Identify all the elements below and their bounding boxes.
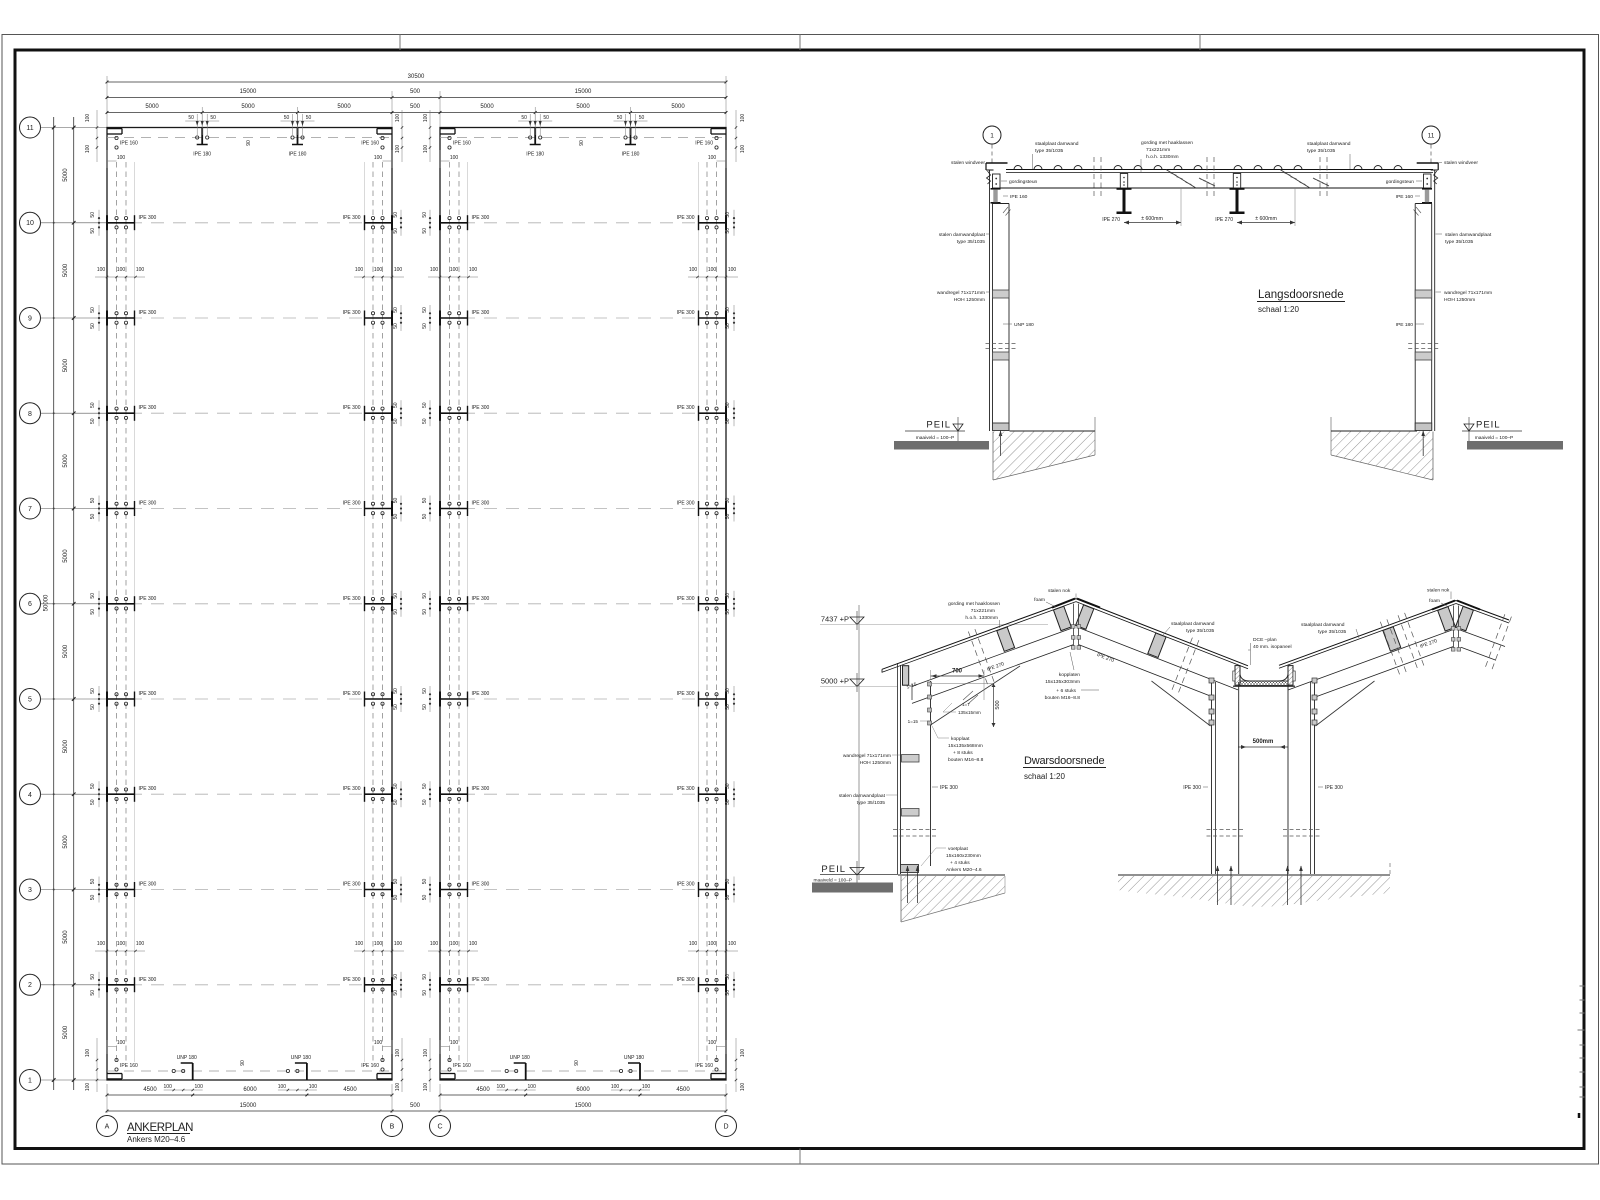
dim 600mm no.1 — [1124, 222, 1181, 224]
svg-text:stalen damwandplaat: stalen damwandplaat — [939, 232, 986, 238]
svg-text:100: 100 — [85, 145, 91, 154]
levels reference line — [858, 605, 860, 880]
svg-text:135x15mm: 135x15mm — [958, 710, 981, 715]
column IPE180 top x=535.2 — [534, 128, 536, 145]
svg-text:71x221mm: 71x221mm — [1146, 147, 1170, 153]
grid leader row 8 — [41, 412, 108, 414]
grid leader row 10 — [41, 222, 108, 224]
svg-text:50: 50 — [725, 498, 731, 504]
column IPE300 wall C row 10 — [440, 222, 468, 224]
svg-text:50: 50 — [725, 895, 731, 901]
svg-text:+ 6 stuks: + 6 stuks — [1056, 688, 1076, 694]
corner column D11 — [711, 128, 726, 130]
svg-text:kopplaten: kopplaten — [1059, 672, 1080, 678]
50 dims wall C row 5 — [429, 686, 431, 712]
svg-text:100: 100 — [708, 941, 717, 947]
svg-text:type 35/1035: type 35/1035 — [1318, 629, 1347, 635]
corner column C11 — [440, 128, 455, 130]
grid bubble 7 — [20, 498, 41, 519]
svg-text:IPE 300: IPE 300 — [677, 882, 695, 888]
svg-text:IPE 300: IPE 300 — [677, 977, 695, 983]
gordingsteun left — [993, 174, 1001, 188]
svg-text:HOH 1250mm: HOH 1250mm — [1444, 297, 1475, 303]
svg-text:stalen windveer: stalen windveer — [951, 160, 985, 166]
purlin blocks slope 2 — [1076, 605, 1094, 629]
svg-text:IPE 300: IPE 300 — [677, 786, 695, 792]
svg-text:type 35/1035: type 35/1035 — [1186, 628, 1215, 634]
svg-text:100: 100 — [374, 941, 383, 947]
centre line row 2 — [107, 984, 392, 986]
svg-text:foam: foam — [1429, 598, 1440, 604]
gordingsteun right — [1424, 174, 1432, 188]
centre line row 5 — [107, 698, 392, 700]
50 dims wall B row 7 — [400, 496, 402, 522]
grid bubble B — [382, 1116, 403, 1137]
svg-text:100: 100 — [395, 1049, 401, 1058]
svg-text:50: 50 — [393, 593, 399, 599]
svg-text:IPE 160: IPE 160 — [695, 141, 713, 147]
svg-text:IPE 160: IPE 160 — [361, 141, 379, 147]
grid bubble 8 — [20, 403, 41, 424]
column IPE300 wall D row 9 — [699, 317, 727, 319]
svg-text:100: 100 — [450, 1040, 459, 1046]
svg-text:50: 50 — [393, 990, 399, 996]
eave gording block — [903, 666, 909, 686]
svg-text:C: C — [437, 1124, 442, 1131]
svg-text:500: 500 — [410, 104, 421, 110]
svg-text:50: 50 — [393, 514, 399, 520]
dim 500mm middle — [1238, 746, 1288, 748]
50 dims wall A row 8 — [98, 400, 100, 426]
svg-text:50: 50 — [393, 212, 399, 218]
wind brace bay 1 — [1166, 170, 1196, 189]
svg-text:wandregel 71x171mm: wandregel 71x171mm — [843, 753, 891, 759]
svg-text:15000: 15000 — [575, 89, 592, 95]
svg-text:IPE 300: IPE 300 — [940, 785, 958, 791]
ridge plates + bolts apex 1 — [1073, 604, 1075, 648]
svg-text:100: 100 — [450, 155, 459, 161]
svg-text:IPE 300: IPE 300 — [472, 596, 490, 602]
svg-text:50: 50 — [393, 323, 399, 329]
svg-text:50: 50 — [90, 990, 96, 996]
svg-text:100: 100 — [430, 941, 439, 947]
dim line 4500/6000/4500 left bay — [107, 1094, 392, 1096]
svg-text:100: 100 — [309, 1084, 318, 1090]
svg-text:5000 +P: 5000 +P — [821, 677, 849, 686]
ruler ticks right border — [1580, 985, 1585, 987]
svg-text:100: 100 — [450, 941, 459, 947]
label IPE 160 left — [1003, 195, 1008, 197]
grid leader row 9 — [41, 317, 108, 319]
svg-text:15x135x568mm: 15x135x568mm — [948, 743, 983, 749]
svg-text:bouten M16–8.8: bouten M16–8.8 — [1045, 695, 1081, 701]
column IPE300 wall A row 5 — [107, 698, 135, 700]
svg-text:100: 100 — [728, 267, 737, 273]
purlin blocks slope 1 — [997, 627, 1015, 651]
corner column B11 — [377, 128, 392, 130]
foundation hatch right column — [1331, 432, 1433, 481]
svg-text:5000: 5000 — [576, 104, 590, 110]
svg-text:5000: 5000 — [63, 835, 69, 849]
svg-text:50: 50 — [284, 115, 290, 121]
svg-text:IPE 300: IPE 300 — [343, 691, 361, 697]
svg-text:50: 50 — [422, 799, 428, 805]
svg-text:50: 50 — [422, 402, 428, 408]
svg-text:50: 50 — [393, 974, 399, 980]
svg-text:gording met haaklossen: gording met haaklossen — [948, 601, 1000, 607]
svg-text:UNP 180: UNP 180 — [510, 1055, 530, 1061]
svg-text:40 mm. isopaneel: 40 mm. isopaneel — [1253, 644, 1292, 650]
column IPE300 wall B row 7 — [365, 508, 393, 510]
svg-text:IPE 270: IPE 270 — [1102, 217, 1120, 223]
svg-text:11: 11 — [26, 125, 33, 132]
svg-text:IPE 180: IPE 180 — [289, 152, 307, 158]
baseplate dwars left — [901, 865, 919, 873]
svg-text:50: 50 — [90, 974, 96, 980]
svg-text:± 600mm: ± 600mm — [1141, 216, 1163, 222]
centre line row 1 — [107, 1070, 392, 1072]
column dwars left inner flange — [930, 681, 932, 866]
svg-text:5: 5 — [28, 697, 32, 704]
column IPE180 top x=202.2 — [201, 128, 203, 145]
dim 600mm no.2 — [1237, 222, 1295, 224]
50 dims wall C row 4 — [429, 781, 431, 807]
column IPE300 wall D row 5 — [699, 698, 727, 700]
svg-text:3: 3 — [28, 887, 32, 894]
centre line row 3 — [107, 889, 392, 891]
svg-text:stalen nok: stalen nok — [1427, 588, 1450, 594]
corner column A11 — [107, 128, 122, 130]
dim group 100 wall D — [688, 276, 738, 278]
dashed break slope 3 — [1380, 619, 1406, 674]
svg-text:100: 100 — [689, 267, 698, 273]
column IPE300 wall A row 7 — [107, 508, 135, 510]
label IPE 300 middle right — [1318, 786, 1323, 788]
roof deck lines — [1006, 169, 1433, 171]
svg-text:500: 500 — [995, 700, 1001, 709]
svg-text:50: 50 — [422, 879, 428, 885]
svg-text:50: 50 — [90, 704, 96, 710]
ground bar dwars left — [812, 883, 893, 893]
svg-text:50: 50 — [393, 418, 399, 424]
svg-text:h.o.h. 1330mm: h.o.h. 1330mm — [1146, 154, 1179, 160]
anchors middle columns — [1217, 866, 1219, 905]
svg-text:gordingsteun: gordingsteun — [1386, 179, 1415, 185]
svg-text:4500: 4500 — [676, 1087, 690, 1093]
purlin IPE 270 no.1 — [1120, 174, 1127, 189]
roof slope 4 deck — [1456, 601, 1509, 621]
50 dims wall A row 3 — [98, 877, 100, 903]
svg-text:100: 100 — [394, 941, 403, 947]
grid bubble 9 — [20, 308, 41, 329]
svg-text:50: 50 — [725, 212, 731, 218]
svg-text:6000: 6000 — [243, 1087, 257, 1093]
50 dims wall B row 10 — [400, 210, 402, 236]
svg-text:5000: 5000 — [63, 358, 69, 372]
svg-text:1: 1 — [28, 1078, 32, 1085]
stalen nok apex2 — [1432, 601, 1455, 610]
svg-text:15000: 15000 — [575, 1103, 592, 1109]
svg-text:stalen damwandplaat: stalen damwandplaat — [839, 793, 886, 799]
deck panel break lines — [1093, 157, 1095, 196]
svg-text:50: 50 — [725, 974, 731, 980]
purlin blocks slope 3 — [1383, 627, 1401, 651]
svg-text:5000: 5000 — [63, 739, 69, 753]
right bay outline — [440, 128, 726, 1081]
centre line row 10 — [107, 222, 392, 224]
column IPE300 wall A row 4 — [107, 793, 135, 795]
svg-text:IPE 300: IPE 300 — [139, 786, 157, 792]
50 dims wall D row 2 — [733, 972, 735, 998]
svg-text:50: 50 — [639, 115, 645, 121]
svg-text:15000: 15000 — [240, 1103, 257, 1109]
roof deck corrugation bumps — [1014, 166, 1402, 170]
svg-text:IPE 180: IPE 180 — [526, 152, 544, 158]
svg-text:Dwarsdoorsnede: Dwarsdoorsnede — [1024, 755, 1104, 767]
svg-text:UNP 180: UNP 180 — [291, 1055, 311, 1061]
svg-text:+ 4 stuks: + 4 stuks — [950, 860, 970, 866]
svg-text:50: 50 — [422, 974, 428, 980]
svg-text:+ 8 stuks: + 8 stuks — [953, 750, 973, 756]
svg-text:5000: 5000 — [63, 454, 69, 468]
svg-text:IPE 300: IPE 300 — [472, 310, 490, 316]
dim line 15000/500/15000 — [107, 97, 726, 99]
svg-text:staalplaat damwand: staalplaat damwand — [1171, 621, 1215, 627]
svg-text:50: 50 — [393, 879, 399, 885]
column IPE300 wall C row 7 — [440, 508, 468, 510]
svg-text:100: 100 — [740, 114, 746, 123]
svg-text:4: 4 — [28, 792, 32, 799]
50 dims wall B row 4 — [400, 781, 402, 807]
column IPE180 top x=297.5 — [297, 128, 299, 145]
50 dims wall C row 9 — [429, 305, 431, 331]
50 dims wall D row 8 — [733, 400, 735, 426]
svg-text:90: 90 — [240, 1060, 246, 1066]
svg-text:IPE 300: IPE 300 — [1183, 785, 1201, 791]
svg-text:100: 100 — [708, 267, 717, 273]
svg-text:50: 50 — [393, 799, 399, 805]
svg-text:50: 50 — [90, 609, 96, 615]
svg-text:IPE 300: IPE 300 — [139, 310, 157, 316]
svg-text:HOH 1250mm: HOH 1250mm — [860, 760, 891, 766]
svg-text:100: 100 — [423, 145, 429, 154]
channel UNP180 bottom x=192.7 — [192, 1063, 194, 1080]
svg-text:50: 50 — [422, 212, 428, 218]
dashed break slope 1 — [968, 629, 994, 684]
svg-text:IPE 180: IPE 180 — [1396, 322, 1414, 328]
column IPE300 wall C row 2 — [440, 984, 468, 986]
svg-text:schaal 1:20: schaal 1:20 — [1024, 772, 1065, 781]
svg-text:100: 100 — [374, 1040, 383, 1046]
dim group 100 wall A — [95, 950, 145, 952]
grid bubble C — [430, 1116, 451, 1137]
label UNP 180 left — [1003, 323, 1012, 325]
svg-text:5000: 5000 — [63, 930, 69, 944]
svg-text:50: 50 — [393, 228, 399, 234]
svg-text:50: 50 — [393, 609, 399, 615]
svg-text:UNP 180: UNP 180 — [1014, 322, 1034, 328]
svg-text:5000: 5000 — [63, 644, 69, 658]
grid bubble 5 — [20, 689, 41, 710]
anchors dwars left — [907, 866, 909, 903]
50 dims wall B row 9 — [400, 305, 402, 331]
svg-text:90: 90 — [579, 140, 585, 146]
svg-text:IPE 160: IPE 160 — [453, 141, 471, 147]
middle column left — [1211, 678, 1213, 874]
svg-text:stalen nok: stalen nok — [1048, 588, 1071, 594]
svg-text:100: 100 — [423, 114, 429, 123]
svg-text:gording met haaklassen: gording met haaklassen — [1141, 140, 1193, 146]
svg-text:100: 100 — [136, 941, 145, 947]
grid leader row 3 — [41, 889, 108, 891]
svg-text:50: 50 — [422, 418, 428, 424]
column IPE300 wall C row 5 — [440, 698, 468, 700]
svg-text:voetplaat: voetplaat — [948, 846, 968, 852]
svg-text:100: 100 — [740, 1083, 746, 1092]
svg-text:1=15: 1=15 — [908, 719, 919, 724]
svg-text:5000: 5000 — [671, 104, 685, 110]
svg-text:50: 50 — [393, 402, 399, 408]
kopplaat top line — [931, 683, 994, 685]
corner column C1 — [440, 1078, 455, 1080]
svg-text:type 35/1035: type 35/1035 — [1445, 239, 1474, 245]
svg-text:D: D — [723, 1124, 728, 1131]
vertical dim line 50000 overall — [53, 117, 55, 1090]
svg-text:Ankers M20–4.6: Ankers M20–4.6 — [127, 1135, 186, 1144]
svg-text:50: 50 — [725, 879, 731, 885]
svg-text:4500: 4500 — [476, 1087, 490, 1093]
50 dims wall A row 2 — [98, 972, 100, 998]
ground bar right — [1467, 441, 1563, 450]
svg-text:50: 50 — [422, 609, 428, 615]
svg-text:100: 100 — [740, 1049, 746, 1058]
grid bubble 2 — [20, 974, 41, 995]
column dwars left sheet line — [897, 663, 899, 874]
column IPE300 wall D row 2 — [699, 984, 727, 986]
svg-text:IPE 160: IPE 160 — [361, 1063, 379, 1069]
svg-text:IPE 300: IPE 300 — [677, 405, 695, 411]
svg-text:IPE 300: IPE 300 — [139, 215, 157, 221]
column IPE300 wall D row 7 — [699, 508, 727, 510]
svg-text:50: 50 — [90, 783, 96, 789]
50 dims wall A row 4 — [98, 781, 100, 807]
svg-text:100: 100 — [117, 155, 126, 161]
svg-text:50: 50 — [521, 115, 527, 121]
corner column B1 — [377, 1078, 392, 1080]
dim group 100 wall A — [95, 276, 145, 278]
svg-text:IPE 160: IPE 160 — [120, 141, 138, 147]
column IPE300 wall D row 6 — [699, 603, 727, 605]
svg-text:IPE 300: IPE 300 — [677, 310, 695, 316]
fold mark bottom x=800 — [799, 1149, 801, 1165]
column IPE300 wall A row 2 — [107, 984, 135, 986]
svg-text:50: 50 — [90, 799, 96, 805]
svg-text:100: 100 — [395, 114, 401, 123]
svg-text:100: 100 — [278, 1084, 287, 1090]
svg-text:100: 100 — [136, 267, 145, 273]
column IPE300 wall C row 9 — [440, 317, 468, 319]
grid bubble 1 — [20, 1070, 41, 1091]
svg-text:15x160x230mm: 15x160x230mm — [946, 853, 981, 859]
svg-text:15000: 15000 — [240, 89, 257, 95]
svg-text:IPE 160: IPE 160 — [453, 1063, 471, 1069]
weld mark left column head — [1003, 207, 1008, 213]
svg-text:IPE 300: IPE 300 — [343, 405, 361, 411]
svg-text:100: 100 — [355, 267, 364, 273]
dim group 100 wall C — [428, 950, 478, 952]
svg-text:50: 50 — [90, 895, 96, 901]
svg-text:6000: 6000 — [576, 1087, 590, 1093]
svg-text:bouten M16–8.8: bouten M16–8.8 — [948, 757, 984, 763]
svg-text:50: 50 — [725, 514, 731, 520]
svg-text:9: 9 — [28, 316, 32, 323]
svg-text:7: 7 — [28, 506, 32, 513]
svg-text:IPE 300: IPE 300 — [677, 215, 695, 221]
svg-text:schaal 1:20: schaal 1:20 — [1258, 305, 1299, 314]
grid bubble A — [97, 1116, 118, 1137]
svg-text:50: 50 — [210, 115, 216, 121]
50 dims wall D row 5 — [733, 686, 735, 712]
svg-text:500: 500 — [410, 89, 421, 95]
svg-text:100: 100 — [708, 155, 717, 161]
grid leader row 11 — [41, 127, 108, 129]
50 dims wall A row 6 — [98, 591, 100, 617]
svg-text:50: 50 — [725, 323, 731, 329]
svg-text:100: 100 — [450, 267, 459, 273]
column IPE300 wall C row 4 — [440, 793, 468, 795]
svg-text:50: 50 — [393, 688, 399, 694]
grid bubble 4 — [20, 784, 41, 805]
svg-text:6: 6 — [28, 601, 32, 608]
50 dims wall D row 7 — [733, 496, 735, 522]
wandregel blocks dwars — [902, 755, 920, 763]
column right (Langsdoorsnede) — [1434, 170, 1436, 431]
svg-text:5000: 5000 — [63, 168, 69, 182]
svg-text:IPE 300: IPE 300 — [139, 977, 157, 983]
column IPE300 wall B row 10 — [365, 222, 393, 224]
column IPE300 wall D row 3 — [699, 889, 727, 891]
dim group 100 wall B — [354, 950, 404, 952]
svg-text:50: 50 — [90, 228, 96, 234]
svg-text:IPE 270: IPE 270 — [1215, 217, 1233, 223]
roof slope 1 rafter IPE270 — [912, 628, 1073, 687]
svg-text:IPE 300: IPE 300 — [472, 882, 490, 888]
centre line row 8 — [107, 412, 392, 414]
column IPE300 wall C row 6 — [440, 603, 468, 605]
svg-text:IPE 300: IPE 300 — [139, 596, 157, 602]
svg-text:50: 50 — [725, 593, 731, 599]
grid leader row 2 — [41, 984, 108, 986]
svg-text:PEIL: PEIL — [821, 864, 846, 875]
label IPE 300 middle left — [1203, 786, 1208, 788]
svg-text:IPE 300: IPE 300 — [139, 501, 157, 507]
stalen nok apex1 — [1052, 599, 1075, 608]
svg-text:1: 1 — [990, 133, 994, 140]
svg-text:UNP 180: UNP 180 — [177, 1055, 197, 1061]
wall inner face line C — [467, 162, 469, 1062]
svg-text:50: 50 — [90, 688, 96, 694]
column IPE300 wall C row 3 — [440, 889, 468, 891]
IPE 160 head right column — [1422, 188, 1432, 190]
column left (Langsdoorsnede) — [989, 170, 991, 431]
svg-text:IPE 300: IPE 300 — [472, 501, 490, 507]
svg-text:stalen windveer: stalen windveer — [1444, 160, 1478, 166]
svg-text:50: 50 — [725, 799, 731, 805]
svg-text:DCE –plan: DCE –plan — [1253, 637, 1277, 643]
wall inner face line A — [134, 162, 136, 1062]
haunch left column — [931, 666, 1021, 725]
svg-text:50: 50 — [422, 895, 428, 901]
